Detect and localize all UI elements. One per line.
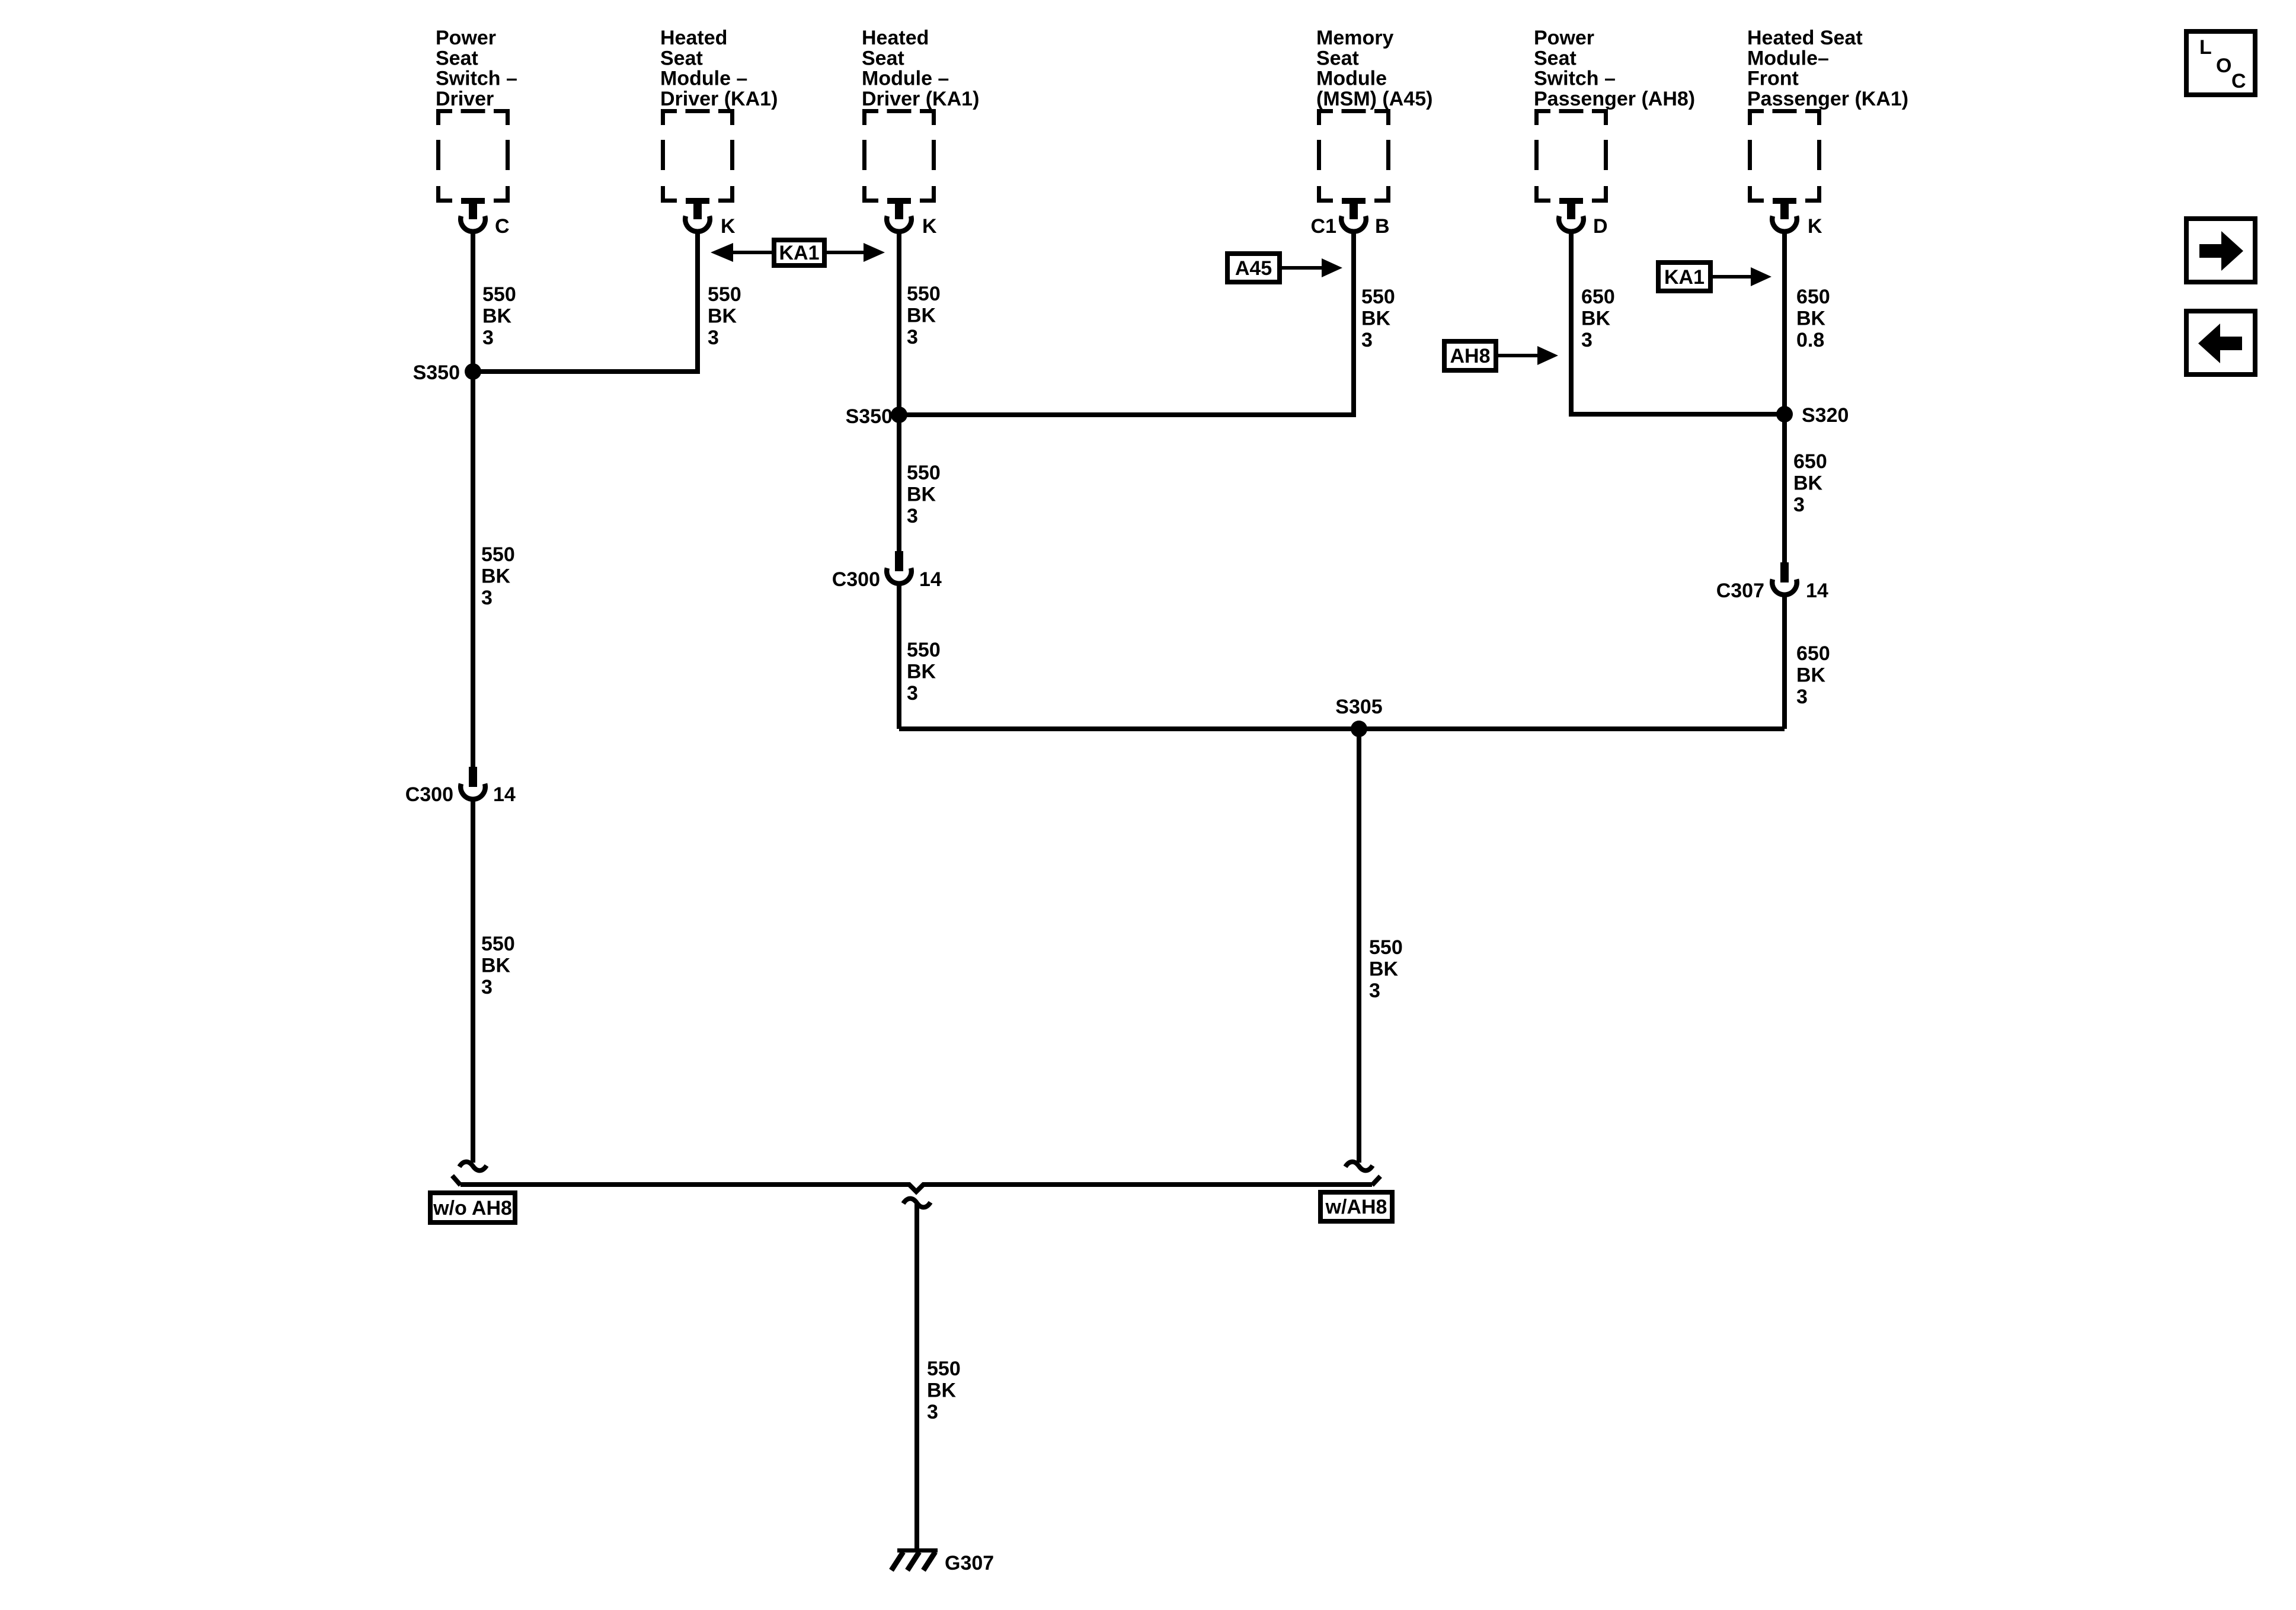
svg-text:14: 14 xyxy=(919,568,942,591)
svg-text:Switch –: Switch – xyxy=(436,68,517,90)
svg-text:Power: Power xyxy=(436,27,496,49)
svg-text:14: 14 xyxy=(493,783,516,806)
svg-text:Seat: Seat xyxy=(436,47,478,69)
svg-text:S350: S350 xyxy=(846,405,893,428)
svg-text:Driver (KA1): Driver (KA1) xyxy=(660,88,778,110)
wire: horizontal run to S320 xyxy=(1571,412,1785,417)
wire: ground drop to G307 xyxy=(914,1204,919,1548)
label 550 BK 3 on wire3 mid xyxy=(907,462,941,527)
svg-text:K: K xyxy=(922,215,937,238)
svg-text:0.8: 0.8 xyxy=(1796,329,1824,351)
svg-text:A45: A45 xyxy=(1235,257,1272,280)
svg-text:BK: BK xyxy=(1793,472,1823,495)
wire: MSM pin B vertical drop xyxy=(1351,232,1356,417)
svg-text:BK: BK xyxy=(1796,308,1826,330)
svg-text:Memory: Memory xyxy=(1316,27,1393,49)
svg-text:Seat: Seat xyxy=(1316,47,1359,69)
component Memory Seat Module (MSM) (A45) xyxy=(1311,27,1433,238)
svg-text:BK: BK xyxy=(708,305,737,328)
svg-text:3: 3 xyxy=(481,976,493,998)
node S320 junction xyxy=(1776,404,1849,427)
svg-text:BK: BK xyxy=(1361,308,1391,330)
label 650 BK 3 on wire6 below S320 xyxy=(1793,450,1827,516)
svg-text:550: 550 xyxy=(907,283,941,305)
svg-text:BK: BK xyxy=(482,305,512,328)
label 550 BK 3 on ground wire xyxy=(927,1358,961,1423)
navigation box arrow left xyxy=(2186,311,2255,375)
label AH8 circuit arrow xyxy=(1444,341,1558,370)
svg-text:w/AH8: w/AH8 xyxy=(1325,1196,1387,1218)
svg-text:K: K xyxy=(1808,215,1822,238)
svg-text:Driver: Driver xyxy=(436,88,494,110)
label 550 BK 3 on wire1 upper xyxy=(482,283,516,349)
svg-text:Passenger (KA1): Passenger (KA1) xyxy=(1747,88,1908,110)
wire: HSM-Driver #2 pin K down through S350 to C300 xyxy=(897,232,901,552)
wire break squiggle (left branch end) xyxy=(459,1162,487,1171)
label 550 BK 3 on wire1 mid xyxy=(481,543,515,609)
svg-text:Module: Module xyxy=(1316,68,1387,90)
svg-text:550: 550 xyxy=(1369,936,1403,959)
wire: C300 #2 down to S305 horizontal run xyxy=(897,585,901,729)
svg-text:550: 550 xyxy=(907,639,941,661)
svg-text:w/o AH8: w/o AH8 xyxy=(433,1197,512,1219)
component Heated Seat Module - Front Passenger (KA1) xyxy=(1747,27,1908,238)
wire: S350 horizontal to HSM-Driver branch xyxy=(473,369,698,374)
label option box w/o AH8 xyxy=(430,1193,515,1222)
wire: Power Seat Switch-Driver pin C down to C300 xyxy=(471,232,475,767)
svg-text:C1: C1 xyxy=(1311,215,1336,238)
svg-text:3: 3 xyxy=(907,326,918,348)
connector C307 pin 14 xyxy=(1716,562,1828,602)
svg-text:14: 14 xyxy=(1806,580,1828,602)
navigation box arrow right xyxy=(2186,219,2255,282)
label 550 BK 3 on wire3 upper xyxy=(907,283,941,348)
label option box w/AH8 xyxy=(1320,1192,1392,1221)
wire: S305 horizontal run from centre wire to C307 wire xyxy=(899,726,1785,731)
svg-text:C: C xyxy=(2231,70,2246,92)
svg-text:S350: S350 xyxy=(413,361,460,384)
svg-text:Power: Power xyxy=(1534,27,1594,49)
svg-text:L: L xyxy=(2199,36,2212,59)
svg-text:Module –: Module – xyxy=(862,68,949,90)
svg-text:550: 550 xyxy=(927,1358,961,1380)
svg-text:C300: C300 xyxy=(405,783,453,806)
wire: C300 to bottom break (w/o AH8 branch) xyxy=(471,801,475,1163)
svg-text:C: C xyxy=(495,215,510,238)
svg-text:BK: BK xyxy=(907,484,936,506)
svg-text:Heated Seat: Heated Seat xyxy=(1747,27,1863,49)
wire: S305 down to bottom break (w/AH8 branch) xyxy=(1357,729,1361,1163)
svg-text:550: 550 xyxy=(482,283,516,306)
svg-text:BK: BK xyxy=(907,305,936,327)
connector C300 pin 14 (centre wire) xyxy=(832,551,942,591)
svg-text:Seat: Seat xyxy=(1534,47,1576,69)
svg-text:C307: C307 xyxy=(1716,580,1764,602)
svg-text:550: 550 xyxy=(907,462,941,484)
label 550 BK 3 on wire2 xyxy=(708,283,741,349)
svg-text:KA1: KA1 xyxy=(1664,266,1705,289)
svg-text:650: 650 xyxy=(1793,450,1827,473)
svg-text:BK: BK xyxy=(1796,664,1826,687)
svg-text:Driver (KA1): Driver (KA1) xyxy=(862,88,979,110)
label 550 BK 3 on MSM drop xyxy=(1361,286,1395,351)
svg-text:3: 3 xyxy=(1361,329,1373,351)
wire break squiggle (ground branch start) xyxy=(903,1199,930,1208)
svg-text:3: 3 xyxy=(907,682,918,705)
svg-text:Module –: Module – xyxy=(660,68,747,90)
svg-text:BK: BK xyxy=(927,1379,957,1402)
svg-text:D: D xyxy=(1593,215,1608,238)
label 550 BK 3 on wire3 below C300 xyxy=(907,639,941,705)
label 650 BK 0.8 on front passenger drop xyxy=(1796,286,1830,351)
svg-text:S320: S320 xyxy=(1802,404,1849,427)
wire: C307 down to S305 horizontal run xyxy=(1782,597,1787,729)
svg-text:O: O xyxy=(2216,55,2231,77)
svg-text:C300: C300 xyxy=(832,568,880,591)
LOC reference box xyxy=(2186,31,2255,95)
wire break squiggle (right branch end) xyxy=(1345,1162,1373,1171)
component Power Seat Switch - Driver xyxy=(436,27,517,238)
svg-text:Switch –: Switch – xyxy=(1534,68,1616,90)
wire: HSM-Front Passenger pin K down through S320 to C307 xyxy=(1782,232,1787,562)
svg-text:BK: BK xyxy=(1581,308,1611,330)
svg-text:Seat: Seat xyxy=(862,47,904,69)
component Power Seat Switch - Passenger (AH8) xyxy=(1534,27,1695,238)
label KA1 circuit arrow (between driver modules) xyxy=(711,240,885,265)
svg-text:G307: G307 xyxy=(945,1552,994,1574)
svg-text:Front: Front xyxy=(1747,68,1799,90)
component Heated Seat Module - Driver (KA1) xyxy=(660,27,778,238)
svg-text:3: 3 xyxy=(1581,329,1593,351)
svg-text:3: 3 xyxy=(482,327,494,349)
svg-text:3: 3 xyxy=(708,327,719,349)
svg-text:S305: S305 xyxy=(1335,696,1382,718)
svg-text:3: 3 xyxy=(1369,980,1380,1002)
svg-text:3: 3 xyxy=(481,587,493,609)
connector C300 pin 14 (left wire) xyxy=(405,767,516,806)
svg-text:Seat: Seat xyxy=(660,47,703,69)
svg-text:Heated: Heated xyxy=(862,27,929,49)
svg-text:BK: BK xyxy=(481,955,511,977)
svg-text:KA1: KA1 xyxy=(779,242,819,264)
label 650 BK 3 on passenger switch drop xyxy=(1581,286,1615,351)
svg-text:650: 650 xyxy=(1796,642,1830,665)
node S350 junction (centre) xyxy=(846,405,907,428)
svg-text:3: 3 xyxy=(1793,494,1805,516)
svg-text:550: 550 xyxy=(708,283,741,306)
svg-text:BK: BK xyxy=(481,565,511,588)
ground G307 xyxy=(891,1548,994,1574)
svg-text:Passenger (AH8): Passenger (AH8) xyxy=(1534,88,1695,110)
svg-text:550: 550 xyxy=(1361,286,1395,308)
svg-text:BK: BK xyxy=(1369,958,1399,981)
svg-text:3: 3 xyxy=(927,1401,938,1423)
label KA1 circuit arrow (front passenger) xyxy=(1658,263,1771,291)
svg-text:Heated: Heated xyxy=(660,27,727,49)
svg-text:Module–: Module– xyxy=(1747,47,1829,69)
label 550 BK 3 on wire1 lower xyxy=(481,933,515,998)
svg-text:BK: BK xyxy=(907,661,936,683)
node S305 junction xyxy=(1335,696,1382,737)
svg-text:(MSM) (A45): (MSM) (A45) xyxy=(1316,88,1432,110)
component Heated Seat Module - Driver (KA1) #2 xyxy=(862,27,979,238)
wire: S350 #2 horizontal over to MSM pin B drop xyxy=(899,412,1354,417)
svg-text:3: 3 xyxy=(907,505,918,527)
svg-text:550: 550 xyxy=(481,933,515,955)
svg-text:B: B xyxy=(1375,215,1390,238)
svg-text:550: 550 xyxy=(481,543,515,566)
node S350 junction (left) xyxy=(413,361,481,384)
label 550 BK 3 on S305 drop xyxy=(1369,936,1403,1002)
svg-text:650: 650 xyxy=(1581,286,1615,308)
svg-text:K: K xyxy=(721,215,736,238)
svg-text:3: 3 xyxy=(1796,686,1808,708)
wire: HSM-Driver pin K down to S350 junction row xyxy=(695,232,700,374)
svg-text:650: 650 xyxy=(1796,286,1830,308)
svg-text:AH8: AH8 xyxy=(1450,345,1490,367)
label A45 circuit arrow xyxy=(1227,254,1342,282)
wire: Power Seat Switch-Passenger pin D drop to S320 run xyxy=(1569,232,1574,417)
wire: bottom horizontal option bus with end ticks and centre notch xyxy=(452,1176,1380,1192)
label 650 BK 3 on wire6 below C307 xyxy=(1796,642,1830,708)
